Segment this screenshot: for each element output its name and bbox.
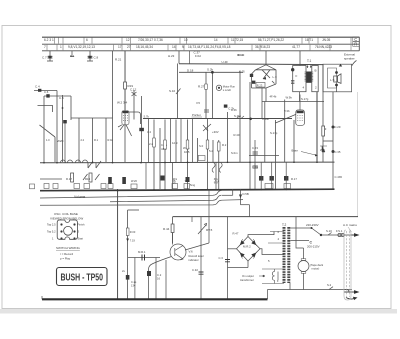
svg-text:27: 27 (127, 45, 131, 49)
wire vertical x134 trimmer (133, 90, 135, 120)
svg-text:Start: Start (78, 237, 84, 241)
wire vertical x125 (124, 51, 126, 162)
wire vertical x117.6 dark (117, 189, 119, 299)
svg-text:C.7: C.7 (42, 56, 47, 60)
wire T2 bottom left (267, 290, 269, 300)
wire vertical x141.5 (141, 96, 143, 162)
svg-text:Tap 2,5: Tap 2,5 (47, 223, 56, 227)
resistor box a (153, 138, 156, 147)
wire vertical x240 (239, 71, 241, 162)
svg-text:S.1: S.1 (70, 54, 75, 58)
wire rail y96 (44, 95, 71, 97)
wire v3 continue (265, 88, 267, 102)
switch on return (329, 287, 333, 290)
stub x72 (71, 51, 73, 57)
wire vertical x134.9 (134, 258, 136, 300)
T2 core line (285, 227, 287, 283)
resistor R03 (126, 228, 129, 236)
wire vertical x127.6 (127, 210, 129, 299)
valve V2 base wires (118, 125, 132, 136)
wire C tap (291, 240, 310, 242)
junction dot S2b (211, 71, 214, 74)
wire rail y90 left (34, 90, 57, 92)
svg-text:W.20: W.20 (131, 179, 137, 183)
wire vertical x181 (180, 119, 182, 162)
svg-text:On output: On output (242, 274, 254, 278)
coil pin labels (47, 223, 85, 241)
junction dot x62 (62, 107, 64, 109)
junction dot 220v (311, 227, 313, 229)
wire vertical x317 (316, 92, 318, 163)
wire y195 psu (222, 194, 233, 196)
wire valve top right hook (129, 112, 141, 124)
svg-text:7/26,30,17 0.7,36: 7/26,30,17 0.7,36 (138, 38, 163, 42)
wire vertical x296 (295, 228, 297, 241)
svg-text:C.6: C.6 (44, 90, 49, 94)
wire T2 bottom pin (289, 283, 291, 290)
junction dot (164, 189, 166, 191)
svg-text:R.2: R.2 (222, 143, 227, 147)
wire rail y70 (179, 71, 243, 73)
mains arrow 3 hook (346, 298, 354, 300)
svg-text:S.0: S.0 (199, 144, 204, 148)
wire rail y217 (173, 216, 359, 218)
junction dot rail (249, 118, 252, 121)
wire vertical x166 (165, 260, 167, 299)
switch boxes on bus (30, 184, 291, 189)
table right edge (358, 37, 360, 51)
cap C16 blob (108, 177, 112, 184)
table line 1 (42, 36, 359, 38)
wire rail y162 long (40, 161, 335, 164)
coil base circle (64, 226, 73, 235)
svg-text:C.35: C.35 (335, 150, 341, 154)
tiny labels on bus (131, 179, 219, 187)
svg-text:S.7b: S.7b (144, 115, 150, 119)
control line y194.5 (40, 191, 222, 199)
svg-text:V.6: V.6 (189, 250, 194, 254)
wire T1 bottom (299, 92, 301, 102)
speaker box (323, 64, 352, 92)
wire v3 left drop (252, 70, 256, 88)
wire y200 ext (222, 199, 244, 202)
small box x198 (198, 156, 205, 161)
valve V3b grid dots (297, 115, 302, 121)
diode D5B (239, 195, 242, 199)
svg-text:transformer: transformer (240, 278, 254, 282)
svg-text:R.21: R.21 (115, 58, 122, 62)
wire vertical x207.5 (207, 119, 209, 189)
cap C9 blob (63, 120, 67, 123)
svg-text:6.2 3 1: 6.2 3 1 (44, 38, 54, 42)
svg-text:C.29: C.29 (335, 125, 341, 129)
svg-text:C.8: C.8 (94, 56, 99, 60)
junction dot (227, 161, 229, 163)
svg-text:motor): motor) (312, 267, 320, 271)
blob C7 (48, 56, 51, 59)
svg-text:+30V: +30V (212, 130, 219, 134)
thick bus y189 (40, 189, 335, 191)
cap C24 plates (253, 166, 258, 168)
wire vertical x197.5 (197, 138, 199, 162)
svg-text:C.5: C.5 (59, 96, 64, 100)
wire vertical x335 (332, 92, 334, 189)
junction dot (293, 161, 295, 163)
bridge diode 3 (239, 252, 244, 259)
wire bottom return (268, 289, 353, 291)
diode D13 blob (291, 68, 294, 71)
wire vertical x65 (64, 121, 66, 163)
boxed R (353, 42, 360, 47)
table row 1 numbers (44, 38, 331, 42)
capacitor C8 (87, 51, 93, 61)
svg-text:OSC. COIL BASE: OSC. COIL BASE (54, 212, 78, 216)
switch s2 pair (83, 174, 100, 180)
wire vertical x125b valve feed (124, 51, 126, 110)
wire motor feed (296, 241, 304, 248)
wire pot upper (208, 189, 210, 217)
wire vertical x262 (261, 88, 263, 119)
svg-text:C.4b5: C.4b5 (335, 175, 343, 179)
svg-text:R: R (354, 42, 357, 47)
wire rail y119.5 mid (143, 118, 292, 120)
svg-text:C.32: C.32 (192, 268, 198, 272)
svg-text:R.47: R.47 (233, 232, 239, 236)
svg-text:R.27: R.27 (198, 85, 205, 89)
wire vertical x286.2 low (285, 163, 287, 190)
svg-text:D.18: D.18 (187, 68, 194, 72)
electro blob mid5 (284, 176, 288, 181)
junction dot (164, 162, 166, 164)
cap C17 blob (122, 177, 126, 184)
electro blob mid1 (161, 176, 165, 181)
wire rail y99.5 (262, 101, 324, 103)
svg-text:R.33: R.33 (238, 53, 245, 57)
switch s lines (88, 161, 101, 168)
valve V3b base curve (276, 115, 296, 124)
svg-text:(Tape deck: (Tape deck (310, 263, 324, 267)
svg-text:2.2: 2.2 (81, 138, 85, 142)
svg-text:M.R.2: M.R.2 (243, 245, 251, 249)
valve V2 grid dots (123, 115, 128, 121)
svg-text:S.10: S.10 (326, 229, 332, 233)
rail hops left (61, 160, 88, 163)
svg-text:220-230V: 220-230V (306, 223, 319, 227)
svg-text:41,77: 41,77 (292, 45, 300, 49)
cap on T1 box (291, 80, 294, 83)
cap MR1 (142, 255, 145, 261)
svg-text:R15: R15 (85, 177, 91, 181)
svg-text:56,71,27,P1,26,22: 56,71,27,P1,26,22 (258, 38, 284, 42)
svg-text:F.0d: F.0d (195, 54, 201, 58)
inner jack rect (328, 68, 337, 88)
junction dot (260, 189, 262, 191)
svg-text:10: 10 (184, 38, 188, 42)
wire T2 heater (262, 269, 284, 284)
preset cap V5 (204, 110, 209, 112)
svg-text:V.5: V.5 (196, 101, 200, 105)
jack plug triangle (339, 64, 342, 67)
wire stub x192 (191, 217, 193, 222)
T1 box right (312, 66, 318, 92)
junction dot (207, 189, 209, 191)
bridge rectifier (237, 237, 261, 262)
wire vertical x250 (249, 82, 251, 189)
wire bridge left (228, 248, 237, 250)
wire box edge x189.5 (189, 51, 191, 64)
wire vertical x176 (175, 120, 177, 163)
wire return to arrow (344, 290, 349, 293)
svg-text:36, 916,23: 36, 916,23 (255, 45, 270, 49)
wire vertical x232.7 (232, 189, 234, 195)
resistor R44 (171, 224, 174, 233)
wire vertical x71 (70, 96, 72, 120)
svg-text:W2C: W2C (57, 139, 65, 143)
resistor R39 (322, 126, 325, 136)
mains cable capsule (344, 230, 351, 300)
cap blob x149 (147, 271, 151, 276)
motor tabs (301, 259, 306, 261)
svg-text:18,16,45,34: 18,16,45,34 (136, 45, 153, 49)
switch break S10 (176, 89, 181, 95)
svg-text:6: 6 (86, 38, 88, 42)
svg-text:S.10: S.10 (169, 89, 176, 93)
wire bridge bottom (247, 261, 249, 268)
svg-text:M.R.1: M.R.1 (138, 250, 146, 254)
jack cable curve (352, 61, 357, 67)
wire bridge top (248, 232, 274, 237)
svg-text:5mg: 5mg (190, 183, 196, 187)
svg-text:R.1b: R.1b (108, 138, 114, 142)
pot RV5 arrow (198, 224, 207, 235)
T2 primary winding (283, 227, 286, 283)
page shadow bottom (0, 309, 397, 314)
svg-text:12: 12 (126, 38, 130, 42)
cap C6 blob (46, 94, 49, 97)
speaker LS (334, 76, 338, 82)
wire vertical x44 (43, 96, 45, 162)
resistor R27 box (205, 84, 208, 89)
svg-text:16: 16 (157, 277, 160, 281)
T1 winding hatch (305, 72, 314, 81)
wire vertical x300 T1 feed (299, 51, 301, 66)
bridge diode 4 (252, 252, 257, 259)
svg-text:76.NN,4223: 76.NN,4223 (315, 45, 332, 49)
labels mid strip (173, 178, 219, 184)
junction dot (117, 190, 119, 192)
transistor V6 circle (170, 244, 186, 260)
T1 box left (293, 66, 306, 92)
resistor box e (217, 142, 220, 151)
svg-text:p = Play: p = Play (60, 257, 71, 261)
electro blob mid3 (259, 176, 263, 181)
wire y179 short (40, 178, 62, 180)
switch S11p tick (237, 116, 245, 119)
cap C35 dot (332, 150, 335, 153)
transistor V3 cluster top bar (256, 65, 277, 70)
T2 secondary winding (287, 227, 290, 283)
svg-text:A.C mains: A.C mains (343, 223, 357, 227)
valve V2 box (122, 111, 129, 125)
resistor box b (164, 140, 167, 149)
wire vertical x264.8 (264, 102, 266, 163)
svg-text:11,72,15: 11,72,15 (231, 38, 243, 42)
wire vertical x79 (78, 118, 80, 162)
svg-text:BUSH - TP50: BUSH - TP50 (61, 273, 104, 284)
wire valve V3b feed (299, 95, 301, 111)
svg-text:L.S: L.S (330, 78, 335, 82)
trimmer C12 (132, 92, 137, 96)
svg-text:1.0: 1.0 (46, 138, 50, 142)
svg-text:17: 17 (118, 45, 122, 49)
table line 3 (42, 50, 359, 52)
wire vertical x179 (178, 51, 180, 64)
cap C23 plates (253, 152, 258, 154)
electrolytic C13 (139, 128, 144, 131)
svg-text:16,73,44,F1,81,24,F4,8,V5,L8: 16,73,44,F1,81,24,F4,8,V5,L8 (188, 45, 231, 49)
wire rail y62 (179, 63, 323, 66)
wire vertical x172.5b (172, 162, 174, 189)
wire vertical x284.7 (284, 100, 286, 163)
svg-text:PreSet: PreSet (192, 113, 201, 117)
svg-text:1: 1 (60, 45, 62, 49)
bridge diode 1 (239, 239, 244, 246)
junction dot (112, 162, 114, 164)
svg-text:F: F (296, 74, 298, 78)
wire T2 right top (290, 217, 296, 228)
resistor box R15 (89, 173, 92, 182)
svg-text:C.3: C.3 (219, 256, 224, 260)
svg-text:R.17: R.17 (66, 177, 72, 181)
wire mains live (321, 234, 356, 236)
wire vertical x294 (293, 120, 295, 162)
wire vertical x106 (105, 118, 107, 162)
svg-text:s.w left: s.w left (223, 88, 231, 92)
svg-text:S.17p: S.17p (270, 131, 278, 135)
wire vertical x170.5 (170, 119, 172, 162)
wire vertical x160 (159, 128, 161, 189)
svg-text:F.S.1: F.S.1 (336, 229, 343, 233)
svg-text:7: 7 (44, 45, 46, 49)
wire vertical x275.4 (274, 120, 276, 189)
transistor V5 diag (203, 124, 211, 131)
wire v3 bottom bar (252, 84, 277, 88)
svg-text:R.03: R.03 (130, 230, 136, 234)
wire vertical x266 top (265, 51, 267, 65)
wire vertical x227.5b (227, 217, 229, 299)
svg-text:L.3: L.3 (273, 75, 278, 79)
svg-text:R.1: R.1 (94, 138, 99, 142)
wire speaker drop (336, 86, 338, 91)
cable hook upper 1 (212, 163, 215, 173)
svg-text:7.19: 7.19 (130, 239, 136, 243)
chassis bus (42, 298, 268, 300)
junction dot (285, 189, 287, 191)
junction dot (56, 162, 58, 164)
coil base outline (57, 220, 77, 239)
svg-text:T.2: T.2 (282, 223, 286, 227)
table row2 ticks (47, 45, 351, 50)
wire vertical x62.5 (62, 95, 64, 162)
cable twist mark (348, 227, 352, 232)
cap C32 plates (199, 272, 204, 274)
wire vertical x200 (205, 72, 207, 118)
svg-text:10.5: 10.5 (184, 150, 190, 154)
wire motor top (303, 248, 305, 259)
wire vertical x227.5 (227, 112, 229, 162)
wire V6 collector (172, 233, 174, 245)
svg-text:4F.4b: 4F.4b (270, 95, 277, 99)
wire pot to base (185, 243, 209, 250)
heater coil symbols (272, 272, 274, 281)
diode D19 (126, 239, 129, 242)
wire vertical x57 (56, 91, 58, 163)
resistor box d (206, 140, 209, 149)
wire vertical x249.5 (249, 205, 251, 217)
svg-text:C.4: C.4 (35, 85, 40, 89)
wire v3 right drop (275, 70, 277, 84)
wire T2 left taps (268, 232, 284, 244)
mains arrow 2 (344, 291, 355, 293)
wire vertical x187.5 (187, 120, 189, 190)
speaker terminal dots (335, 71, 338, 74)
capacitor C4 (38, 89, 41, 92)
svg-text:Finish: Finish (78, 223, 85, 227)
svg-text:H.23: H.23 (168, 54, 175, 58)
svg-text:Volume: Volume (74, 195, 85, 199)
faint wire vertical x357.5 (357, 92, 359, 217)
wire vertical x146 (145, 163, 147, 190)
table line 2 (42, 43, 359, 45)
svg-text:4.E4b: 4.E4b (262, 117, 270, 121)
wire vertical x323 (322, 64, 324, 162)
switch arm diagonal (40, 125, 56, 137)
svg-text:indicator: indicator (189, 258, 199, 262)
svg-text:200-215V: 200-215V (307, 245, 320, 249)
valve V2 plate (123, 111, 129, 113)
wire vertical x255 (254, 140, 256, 189)
valve V3b box (296, 110, 305, 125)
arrow to coil (259, 275, 265, 277)
wire vertical x216 (215, 162, 217, 189)
cap C18 blob (224, 105, 228, 108)
wire vertical x55b (54, 137, 56, 162)
fan blob C05 (250, 74, 253, 77)
svg-text:S.0m: S.0m (231, 151, 238, 155)
wire y204.7 psu (241, 204, 250, 206)
svg-text:S.17g: S.17g (301, 97, 309, 101)
transistor V3 diagonals (262, 70, 275, 84)
left column labels (46, 138, 114, 142)
wire left bus end (41, 296, 43, 299)
wire 220v tap (296, 227, 311, 229)
transistor V6 internals (175, 246, 183, 260)
junction dot (140, 162, 142, 164)
wire vertical x177.5 long (177, 64, 179, 119)
wire bridge right (260, 249, 284, 255)
wire vertical x201 (200, 217, 202, 299)
junction dot (187, 162, 189, 164)
wire y210 stub (128, 209, 139, 211)
resistor R19 (124, 82, 127, 89)
svg-text:5.2: 5.2 (209, 149, 213, 153)
emitter arrowhead (263, 77, 266, 80)
svg-text:Tap 5,2: Tap 5,2 (47, 230, 56, 234)
wire vertical x261 low (260, 163, 262, 190)
svg-text:C.12: C.12 (130, 88, 137, 92)
junction dot (249, 161, 251, 163)
cable wires dashed (346, 231, 349, 297)
